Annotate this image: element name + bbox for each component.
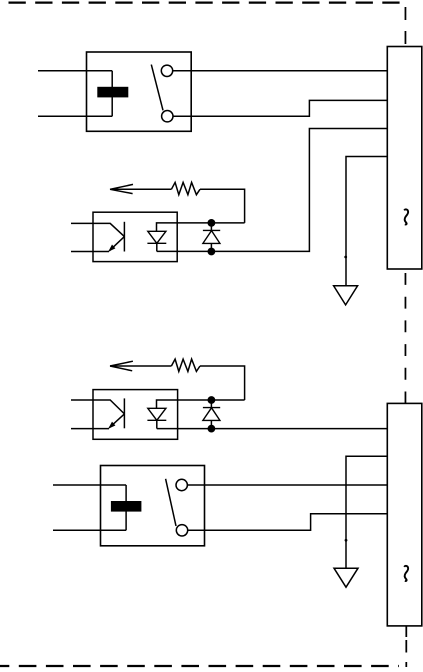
optocoupler U1 emitter with arrow: [109, 237, 124, 251]
dashed border right (below connector J2): [405, 626, 407, 667]
diode D1 (TVS): [210, 223, 212, 231]
wire LED cathode to J1 (via riser): [157, 129, 387, 252]
relay K1 contact bottom: [162, 111, 173, 122]
wire K1 coil input top: [38, 70, 112, 72]
relay K1 switch arm: [151, 65, 163, 111]
wire U2 emitter input: [71, 428, 109, 430]
optocoupler U2 emitter with arrow: [109, 414, 124, 428]
optocoupler U1 phototransistor bar: [123, 222, 125, 252]
relay K2 switch arm: [166, 479, 176, 526]
relay K1 coil bar: [97, 87, 128, 98]
dashed border bottom: [0, 665, 399, 667]
resistor R2: [171, 359, 200, 371]
junction node bottom: [208, 248, 216, 256]
resistor R1: [171, 182, 200, 194]
junction dot on ground wire 2: [345, 539, 348, 542]
optocoupler U1 box: [93, 212, 177, 261]
dashed border right (above connector J1): [404, 7, 406, 44]
wire U2 LED cathode: [156, 420, 158, 428]
resistor R1 arrow: [110, 184, 133, 193]
wire K1 top contact to J1: [173, 70, 388, 72]
connector J2 AC tilde: [404, 566, 408, 581]
junction node top (section 2): [208, 396, 216, 404]
wire U1 emitter input: [71, 251, 109, 253]
relay K1 contact top: [161, 65, 172, 76]
junction node top: [208, 219, 216, 227]
optocoupler U2 phototransistor bar: [123, 398, 125, 428]
wire U1 LED anode: [157, 223, 245, 231]
wire R1 to corner: [200, 189, 245, 223]
wire K2 bottom contact to J2 (jog): [188, 514, 388, 531]
wire arrow to R2: [110, 365, 171, 367]
junction dot on ground wire: [344, 256, 347, 259]
wire R2 to corner: [200, 366, 245, 400]
connector J1 AC tilde: [404, 209, 408, 224]
wire LED cathode to J2: [157, 428, 387, 430]
wire K1 coil vertical: [111, 71, 113, 117]
wire U2 collector input: [71, 400, 124, 414]
relay K2 box: [101, 466, 205, 546]
diode D2 (TVS): [210, 400, 212, 408]
ground symbol bottom: [334, 568, 358, 587]
relay K2 coil bar: [111, 501, 141, 512]
wire J2 ground branch: [346, 456, 387, 568]
wire U2 LED anode: [157, 400, 245, 408]
resistor R2 arrow: [110, 361, 133, 371]
wire K2 top contact to J2: [187, 484, 387, 486]
wire K1 bottom contact to J1 (jog): [173, 100, 387, 116]
wire U1 collector input: [71, 223, 124, 236]
relay K2 contact top: [176, 479, 187, 490]
relay K2 contact bottom: [176, 525, 187, 536]
junction node bottom (section 2): [208, 425, 216, 433]
wire arrow to R1: [110, 188, 171, 190]
wire K2 coil input top: [53, 484, 126, 486]
connector J1: [387, 47, 422, 270]
ground symbol top: [334, 286, 358, 305]
relay K1 box: [87, 52, 192, 131]
wire K2 coil vertical: [125, 485, 127, 530]
wire J1 ground branch: [346, 157, 387, 286]
connector J2: [387, 403, 422, 626]
dashed border right (between connectors): [404, 273, 406, 403]
dashed border top: [9, 1, 402, 3]
wire U1 LED cathode: [156, 243, 158, 251]
optocoupler U2 box: [93, 390, 178, 440]
optocoupler U2 LED: [148, 408, 166, 420]
optocoupler U1 LED: [148, 231, 166, 243]
wire K1 coil input bottom: [38, 115, 112, 117]
wire K2 coil input bottom: [53, 529, 126, 531]
